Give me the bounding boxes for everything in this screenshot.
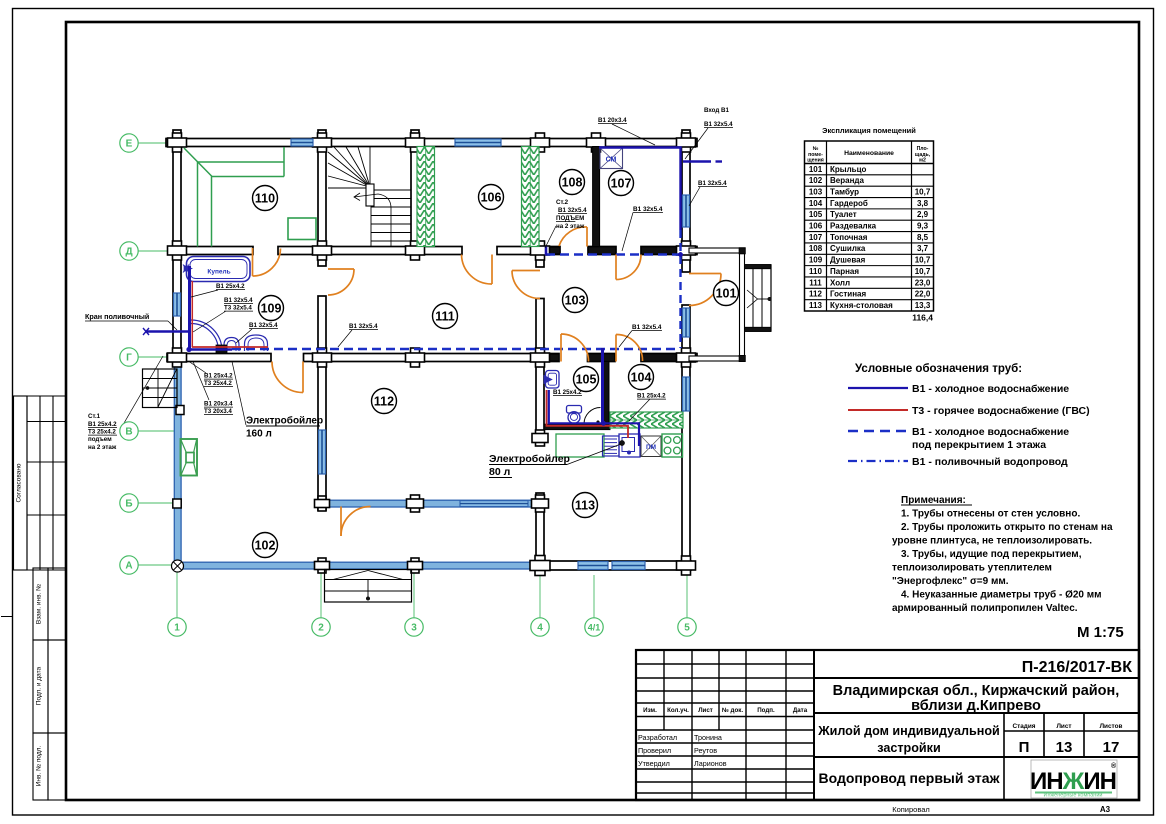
partition 106/108 with insulation (green hatch) (522, 147, 540, 247)
axis line vertical x=594 (593, 575, 595, 618)
svg-text:10,7: 10,7 (915, 187, 931, 196)
svg-text:103: 103 (809, 187, 823, 196)
plunge bath Kupel room 109 (187, 257, 251, 282)
svg-text:В1 - холодное водоснабжение: В1 - холодное водоснабжение (912, 383, 1069, 395)
pipe V1 solid along G in room 109 (189, 348, 232, 350)
svg-text:Кран поливочный: Кран поливочный (85, 312, 149, 321)
left strip: Podp i data box (33, 640, 48, 733)
log joint posts on wall A (318, 558, 326, 573)
svg-text:уровне плинтуса, не теплоизоли: уровне плинтуса, не теплоизолировать. (892, 536, 1092, 547)
svg-text:13,3: 13,3 (915, 301, 931, 310)
svg-text:4/1: 4/1 (588, 623, 601, 633)
left strip: Vzam inv box (33, 568, 48, 640)
svg-text:"Энергофлекс" σ=9 мм.: "Энергофлекс" σ=9 мм. (892, 575, 1009, 587)
title block frame (636, 650, 1139, 800)
svg-text:Т3 32х5.4: Т3 32х5.4 (224, 305, 252, 312)
wall D axis segment right of 106 door (497, 247, 560, 255)
svg-text:Утвердил: Утвердил (638, 759, 670, 768)
svg-text:Примечания:: Примечания: (901, 495, 966, 506)
log joint posts on wall B (veranda) (173, 499, 181, 508)
svg-text:Парная: Парная (830, 267, 859, 276)
svg-text:Купель: Купель (207, 269, 230, 276)
svg-text:В1 32х5.4: В1 32х5.4 (698, 180, 727, 187)
svg-text:106: 106 (481, 190, 502, 204)
pipe V1 dashed along wall G (232, 348, 679, 351)
door 103-111 in wall axis4 (512, 271, 540, 299)
wall G axis stub beyond axis5 (683, 354, 697, 362)
kitchen dishwasher PM (641, 436, 661, 457)
svg-text:В1 20х3.4: В1 20х3.4 (204, 401, 233, 408)
svg-text:Гардероб: Гардероб (830, 199, 868, 208)
svg-text:107: 107 (611, 176, 632, 190)
svg-text:Наименование: Наименование (844, 150, 894, 157)
window in wall E room 106 (455, 139, 501, 146)
svg-text:В1 20х3.4: В1 20х3.4 (598, 117, 627, 124)
svg-text:А: А (125, 561, 132, 572)
washbasins room 109 at wall G (224, 338, 239, 352)
svg-text:110: 110 (255, 191, 275, 205)
svg-text:Ст.1: Ст.1 (88, 413, 101, 420)
axis line V (138, 430, 175, 432)
svg-text:109: 109 (809, 256, 823, 265)
svg-text:на 2 этаж: на 2 этаж (556, 223, 585, 230)
window in wall axis5 room 107 (683, 195, 690, 227)
svg-text:Вход В1: Вход В1 (704, 107, 729, 114)
svg-text:Веранда: Веранда (830, 176, 864, 185)
svg-text:Дата: Дата (793, 707, 808, 714)
svg-text:160 л: 160 л (246, 429, 272, 440)
pipe V1 entry stub (683, 160, 711, 162)
svg-text:В: В (125, 427, 132, 438)
door 108 in wall D (559, 227, 587, 246)
room circle 106 (479, 185, 504, 210)
main stair winder rays (328, 152, 370, 187)
shower screen arc room 109 (191, 320, 222, 351)
wall axis2 upper (110/stairs) (318, 130, 326, 266)
svg-text:В1 32х5.4: В1 32х5.4 (633, 206, 663, 213)
svg-text:110: 110 (809, 267, 822, 276)
washbasin room 105 (546, 371, 560, 389)
pipe V1 dashed along axis5 between G and D (679, 256, 681, 348)
wall axis4 (112-105) (536, 362, 544, 436)
kitchen stove (green, 4 burners) (662, 434, 683, 457)
svg-text:1. Трубы отнесены от стен усло: 1. Трубы отнесены от стен условно. (901, 508, 1080, 520)
svg-text:на 2 этаж: на 2 этаж (88, 444, 117, 451)
svg-text:В1 32х5.4: В1 32х5.4 (704, 121, 733, 128)
axis circle 1 (168, 618, 186, 636)
entry door porch 101 (689, 274, 721, 306)
axis line vertical x=321 (320, 571, 322, 618)
wall G axis right of 104 door (641, 354, 683, 362)
svg-text:Реутов: Реутов (694, 746, 717, 755)
room circle 108 (560, 170, 585, 195)
svg-text:Согласовано: Согласовано (16, 463, 23, 502)
svg-text:В1 - поливочный водопровод: В1 - поливочный водопровод (912, 456, 1068, 468)
svg-text:В1 25х4.2: В1 25х4.2 (88, 421, 117, 428)
svg-text:22,0: 22,0 (915, 290, 931, 299)
room circle 103 (563, 288, 588, 313)
svg-text:112: 112 (809, 290, 822, 299)
wall axis4 (111-103) (536, 299, 544, 362)
window in wall axis1 room 109 (174, 293, 181, 316)
axis line vertical x=540 (539, 575, 541, 618)
svg-text:Копировал: Копировал (892, 805, 930, 814)
explication table grid (805, 141, 934, 311)
main stair newel post (366, 184, 374, 206)
axis circle А (120, 556, 138, 574)
riser St.1 cold pipe to bath (188, 266, 191, 350)
door 110-109 in wall D (253, 249, 281, 277)
svg-text:Листов: Листов (1100, 723, 1123, 730)
wall axis4 top stub at D (536, 247, 544, 267)
axis line A (138, 564, 173, 566)
wall G axis middle (304, 354, 560, 362)
svg-text:Жилой дом индивидуальной: Жилой дом индивидуальной (817, 724, 1000, 738)
svg-text:№ док.: № док. (722, 707, 743, 714)
svg-text:13: 13 (1056, 739, 1073, 756)
toilet room 105 (567, 406, 582, 414)
main stair straight flight treads (371, 189, 411, 191)
svg-text:®: ® (1111, 762, 1117, 770)
wall D axis segment at 107 right (641, 247, 683, 255)
svg-text:Электробойлер: Электробойлер (246, 415, 323, 427)
wall D axis segment 1-2 (168, 247, 253, 255)
svg-text:под перекрытием 1 этажа: под перекрытием 1 этажа (912, 439, 1046, 451)
svg-text:Электробойлер: Электробойлер (489, 453, 570, 465)
svg-text:Е: Е (126, 139, 133, 150)
svg-text:3: 3 (411, 623, 417, 634)
svg-text:Изм.: Изм. (643, 707, 657, 714)
svg-text:Ларионов: Ларионов (694, 759, 727, 768)
svg-text:4: 4 (537, 623, 543, 634)
legend item: V1 irrigation dash-dot line (848, 460, 908, 462)
wall D axis stub beyond axis5 (683, 247, 697, 255)
junction square at stair and veranda wall (176, 406, 184, 415)
svg-text:102: 102 (809, 176, 823, 185)
axis circle Г (120, 348, 138, 366)
riser St.1 hot pipe (191, 281, 193, 347)
svg-text:В1 32х5.4: В1 32х5.4 (632, 324, 662, 331)
room circle 102 (253, 533, 278, 558)
svg-text:Инженерные компании: Инженерные компании (1044, 793, 1103, 799)
wall axis5 upper (right exterior) (682, 130, 690, 272)
pipe V1 room 105 run (549, 390, 639, 446)
title block: document number (814, 677, 1139, 679)
corner shower arc room 105 (584, 408, 601, 425)
svg-text:застройки: застройки (877, 741, 940, 755)
svg-text:Топочная: Топочная (830, 233, 868, 242)
axis circle В (120, 422, 138, 440)
svg-text:Крыльцо: Крыльцо (830, 165, 867, 174)
wall axis5 lower (right exterior) (682, 305, 690, 571)
svg-text:В1 25х4.2: В1 25х4.2 (204, 373, 233, 380)
water tap symbol at corner A1 (172, 560, 184, 572)
svg-text:Т3 20х3.4: Т3 20х3.4 (204, 408, 232, 415)
partition under 105 (solid) (544, 424, 610, 429)
door 105 in wall G (561, 334, 589, 362)
svg-text:105: 105 (576, 372, 597, 386)
door veranda in wall B (341, 507, 371, 537)
svg-text:109: 109 (261, 301, 282, 315)
legend item: V1 dashed under-floor line (848, 430, 908, 432)
porch 101 right wall (740, 248, 745, 361)
legend item: T3 hot water line (848, 409, 908, 411)
pipe T3 along G in room 109 (192, 346, 268, 348)
axis circle 2 (312, 618, 330, 636)
svg-text:Туалет: Туалет (830, 210, 857, 219)
svg-text:Г: Г (126, 353, 132, 364)
axis circle Б (120, 494, 138, 512)
svg-text:111: 111 (435, 309, 455, 323)
door 112 in wall G (272, 362, 303, 393)
svg-text:В1 25х4.2: В1 25х4.2 (216, 283, 245, 290)
room circle 111 (433, 304, 458, 329)
svg-text:м2: м2 (919, 158, 926, 164)
svg-text:Сушилка: Сушилка (830, 244, 866, 253)
svg-text:104: 104 (631, 370, 652, 384)
svg-text:Раздевалка: Раздевалка (830, 222, 877, 231)
svg-text:3,8: 3,8 (917, 199, 929, 208)
room circle 101 (714, 281, 739, 306)
pipe T3 room 105 run (547, 390, 629, 438)
svg-text:Лист: Лист (1056, 723, 1071, 730)
svg-text:армированный полипропилен Valt: армированный полипропилен Valtec. (892, 603, 1078, 614)
electric boiler 80L unit dot (619, 440, 624, 445)
riser St.2 stub (545, 247, 548, 256)
log joint posts on wall E (173, 133, 182, 152)
svg-text:вблизи д.Кипрево: вблизи д.Кипрево (911, 698, 1041, 714)
svg-text:9,3: 9,3 (917, 222, 929, 231)
svg-text:СМ: СМ (606, 157, 617, 164)
svg-text:Душевая: Душевая (830, 256, 866, 265)
fold mark on left border (1, 616, 13, 618)
svg-text:щения: щения (807, 158, 824, 164)
wall A axis log part (room 113) (540, 561, 691, 570)
svg-text:ИНЖИН: ИНЖИН (1030, 768, 1116, 795)
title block: project name cell (814, 756, 1139, 758)
green window symbol on veranda wall axis1 (181, 439, 198, 476)
wall axis2 lower (109-111 to B) (318, 296, 326, 510)
room circle 105 (574, 367, 599, 392)
svg-text:103: 103 (565, 293, 586, 307)
svg-text:А3: А3 (1100, 805, 1111, 814)
svg-text:Водопровод первый этаж: Водопровод первый этаж (818, 770, 1000, 786)
axis circle 4 (531, 618, 549, 636)
svg-text:101: 101 (716, 286, 737, 300)
kitchen counter (green outline) (556, 434, 604, 457)
exterior stair at axis G left (143, 369, 178, 408)
svg-text:Лист: Лист (698, 707, 713, 714)
svg-text:В1 32х5.4: В1 32х5.4 (558, 207, 587, 214)
room circle 112 (372, 389, 397, 414)
svg-text:В1 25х4.2: В1 25х4.2 (637, 393, 666, 400)
room circle 110 (253, 186, 278, 211)
axis circle 5 (678, 618, 696, 636)
svg-text:П: П (1019, 739, 1030, 756)
svg-text:113: 113 (809, 301, 822, 310)
svg-text:10,7: 10,7 (915, 267, 931, 276)
svg-text:111: 111 (809, 278, 822, 287)
svg-text:Д: Д (125, 247, 132, 258)
window in wall E near axis 2 (291, 139, 313, 146)
svg-text:М 1:75: М 1:75 (1077, 624, 1124, 641)
svg-text:Условные обозначения труб:: Условные обозначения труб: (855, 363, 1022, 375)
svg-text:2. Трубы проложить открыто по: 2. Трубы проложить открыто по стенам на (901, 521, 1113, 533)
svg-text:5: 5 (684, 623, 690, 634)
post at end of wall 112-105 (536, 430, 545, 446)
pipe bundle on partition 105/104 (601, 348, 604, 423)
svg-text:Т3 25х4.2: Т3 25х4.2 (88, 429, 116, 436)
axis circle Д (120, 242, 138, 260)
partition 108/107 (solid) (593, 147, 600, 247)
svg-text:113: 113 (575, 498, 595, 512)
room circle 104 (629, 365, 654, 390)
left strip: grid right of Soglasovano (27, 395, 66, 397)
sauna benches room 110 (green) (184, 148, 212, 177)
log joint posts on wall G (173, 348, 182, 367)
svg-text:Экспликация помещений: Экспликация помещений (822, 126, 916, 135)
window segment in veranda wall B (460, 501, 528, 507)
door 107-103 in wall D (616, 255, 641, 280)
room circle 109 (259, 296, 284, 321)
sauna stove room 110 (green square) (288, 218, 316, 240)
svg-text:Проверил: Проверил (638, 746, 671, 755)
svg-text:Т3 - горячее водоснабжение (ГВ: Т3 - горячее водоснабжение (ГВС) (912, 405, 1090, 417)
door 106-111 in wall D (462, 255, 493, 285)
svg-text:80 л: 80 л (489, 466, 510, 478)
svg-text:105: 105 (809, 210, 823, 219)
svg-text:108: 108 (562, 175, 583, 189)
wall G axis at 105-104 (588, 354, 616, 362)
title block: INZHIN logo (1031, 760, 1117, 798)
svg-text:3. Трубы, идущие под перекрыти: 3. Трубы, идущие под перекрытием, (901, 548, 1082, 560)
room circle 107 (609, 171, 634, 196)
axis line B (138, 502, 175, 504)
svg-text:106: 106 (809, 222, 823, 231)
svg-text:Ст.2: Ст.2 (556, 199, 569, 206)
door 104 in wall G (616, 334, 643, 361)
svg-text:ПМ: ПМ (646, 444, 656, 451)
veranda wall A axis (light blue) (173, 562, 540, 569)
svg-text:107: 107 (809, 233, 823, 242)
axis line D (138, 250, 174, 252)
porch 101 descent arrow (747, 290, 758, 308)
svg-text:В1 32х5.4: В1 32х5.4 (224, 297, 253, 304)
windows in wall A room 113 (578, 562, 608, 570)
svg-text:Подп.: Подп. (757, 707, 775, 714)
wall axis4 lower (112-113) (536, 493, 544, 566)
title block: object location (814, 712, 1139, 714)
title block: stage/sheet columns (1003, 713, 1005, 757)
axis circle 3 (405, 618, 423, 636)
window in wall axis5 room 113 (683, 377, 690, 411)
svg-text:Тронина: Тронина (694, 733, 722, 742)
svg-text:116,4: 116,4 (912, 313, 933, 323)
svg-text:В1 - холодное водоснабжение: В1 - холодное водоснабжение (912, 426, 1069, 438)
svg-text:101: 101 (809, 165, 823, 174)
svg-text:подъем: подъем (88, 436, 112, 443)
svg-text:3,7: 3,7 (917, 244, 929, 253)
window in wall axis2 room 112 (319, 430, 326, 474)
wall D axis segment 108-107 (588, 247, 616, 255)
svg-text:Б: Б (125, 499, 132, 510)
partition 105/104 (solid) (602, 362, 609, 424)
kitchen fridge (603, 436, 620, 456)
porch 101 bottom wall (689, 356, 745, 361)
axis line vertical x=177 (176, 572, 178, 618)
svg-text:104: 104 (809, 199, 823, 208)
axis line G (138, 356, 167, 358)
svg-text:П-216/2017-ВК: П-216/2017-ВК (1022, 659, 1132, 676)
svg-text:17: 17 (1103, 739, 1120, 756)
porch 101 top wall (689, 248, 745, 253)
svg-text:1: 1 (174, 623, 180, 634)
svg-text:В1 25х4.2: В1 25х4.2 (553, 389, 582, 396)
svg-text:В1 32х5.4: В1 32х5.4 (249, 322, 278, 329)
pipe V1 dashed along wall D (546, 253, 679, 256)
title block: left change-table grid (636, 663, 814, 665)
porch 101 outside steps (745, 265, 772, 269)
veranda entrance steps below wall A (325, 570, 412, 603)
svg-text:2: 2 (318, 623, 324, 634)
kitchen sink (619, 434, 640, 457)
partition 104/113 with insulation (green hatch) (610, 412, 683, 428)
electric boiler 160L unit (216, 345, 227, 353)
left strip: Inv No podl box (33, 733, 48, 800)
wall axis1 veranda part (light blue) (174, 362, 181, 570)
svg-text:2,9: 2,9 (917, 210, 929, 219)
svg-text:102: 102 (255, 538, 276, 552)
svg-text:Взам. инв. №: Взам. инв. № (36, 584, 43, 624)
room circle 113 (573, 493, 598, 518)
axis circle Е (120, 134, 138, 152)
svg-text:Гостиная: Гостиная (830, 290, 866, 299)
axis line vertical x=687 (686, 575, 688, 618)
left strip: Soglasovano column (14, 396, 28, 570)
window in wall axis5 room 103 (683, 308, 690, 337)
wall D axis segment 2-3/4 (278, 247, 462, 255)
svg-text:Кол.уч.: Кол.уч. (667, 707, 689, 714)
svg-text:Т3 25х4.2: Т3 25х4.2 (204, 380, 232, 387)
svg-text:10,7: 10,7 (915, 256, 931, 265)
pipe V1 dashed right wall 107 lower (679, 230, 681, 255)
axis circle 4/1 (585, 618, 603, 636)
svg-text:В1 32х5.4: В1 32х5.4 (349, 323, 378, 330)
svg-text:Тамбур: Тамбур (830, 187, 859, 196)
washing machine SM room 107 (600, 148, 623, 169)
svg-text:Подп. и дата: Подп. и дата (36, 666, 43, 705)
svg-text:Разработал: Разработал (638, 733, 677, 742)
svg-text:ПОДЪЕМ: ПОДЪЕМ (556, 215, 584, 222)
svg-text:теплоизолировать утеплителем: теплоизолировать утеплителем (892, 563, 1052, 574)
legend item: V1 cold water solid line (848, 387, 908, 389)
veranda wall B axis (light blue) (322, 500, 540, 507)
svg-text:112: 112 (374, 394, 394, 408)
svg-text:Стадия: Стадия (1012, 723, 1035, 730)
door 109-111 in wall axis2 (328, 269, 354, 295)
main stair walking line with arrow (354, 194, 391, 246)
axis line vertical x=414 (413, 571, 415, 618)
svg-text:Владимирская обл., Киржачский: Владимирская обл., Киржачский район, (833, 683, 1120, 699)
irrigation tap pipe (kran polivochny) (145, 330, 188, 333)
svg-text:Холл: Холл (830, 278, 850, 287)
svg-text:4. Неуказанные диаметры труб -: 4. Неуказанные диаметры труб - Ø20 мм (901, 589, 1102, 601)
svg-text:23,0: 23,0 (915, 278, 931, 287)
wall axis1 log part (left exterior) (173, 130, 181, 362)
svg-text:8,5: 8,5 (917, 233, 929, 242)
svg-text:Инв. № подл.: Инв. № подл. (36, 746, 43, 787)
axis line E (138, 142, 172, 144)
